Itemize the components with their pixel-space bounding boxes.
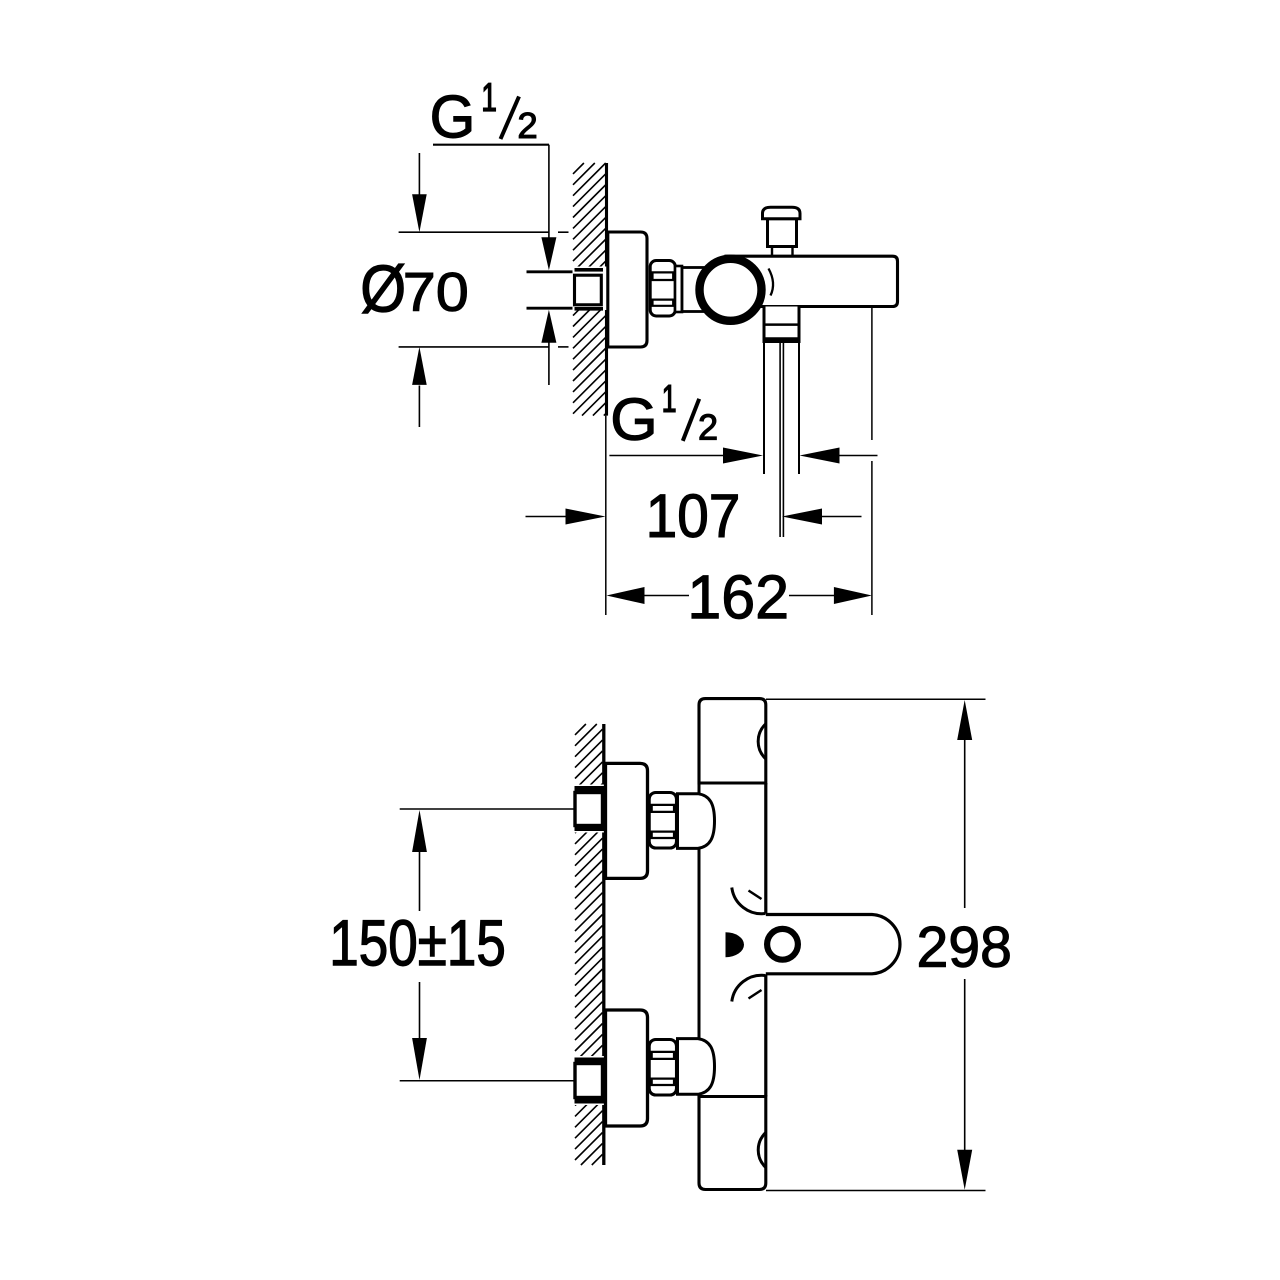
in-wall union nut [573,267,608,311]
union cone (bottom inlet) [678,1039,715,1095]
dimension 150 +/- 15 [400,809,576,1081]
union cone (top inlet) [678,794,715,849]
thermostat knob (side view circle) [700,259,762,321]
wall extension line [605,416,607,615]
handle arc (top) [758,724,766,759]
body top cap (plan) [699,699,766,783]
S-union nut (side view) [650,261,675,317]
union adapter [675,266,682,312]
bath spout (plan) [766,915,900,974]
shower hose fitting [764,307,799,342]
wall hatching (plan view) [575,724,603,1165]
supply pipe stub [527,272,575,308]
spout flare bottom [732,975,766,1001]
mixer body (side view) [726,256,898,306]
rosette (top inlet, plan) [606,763,648,878]
fillet arc [769,269,774,296]
body right edge (plan) [764,783,767,1097]
dimension 298 [766,699,986,1190]
dimension 162 [692,575,786,619]
body bottom cap (plan) [699,1097,766,1190]
spout flare top [732,888,766,914]
spout hole half-moon [726,932,745,957]
in-wall union nut (top inlet) [573,785,606,833]
diverter knob stem [768,219,797,247]
wall surface line (side view) [605,163,608,416]
handle arc (bottom) [758,1133,766,1168]
aerator [767,929,798,960]
dimension 107 [650,494,738,538]
dimension G 1/2 (hose) [613,398,653,440]
dimension D70 [418,153,420,195]
in-wall union nut (bottom inlet) [573,1056,606,1105]
S-union nut (bottom inlet, plan) [649,1040,676,1096]
escutcheon rosette (side view) [608,232,647,347]
connection cylinder [682,268,705,312]
extension lines (hose fitting) [764,342,799,475]
wall surface line (plan view) [602,724,605,1165]
spout outlet extension line [871,307,873,616]
diverter knob cap [763,207,801,218]
diverter knob neck [772,247,793,258]
rosette (bottom inlet, plan) [606,1010,648,1126]
wall hatching (side view) [573,163,607,416]
body left edge (plan) [698,783,701,1097]
dimension G 1/2 (top label) [433,95,471,138]
S-union nut (top inlet, plan) [649,793,676,849]
